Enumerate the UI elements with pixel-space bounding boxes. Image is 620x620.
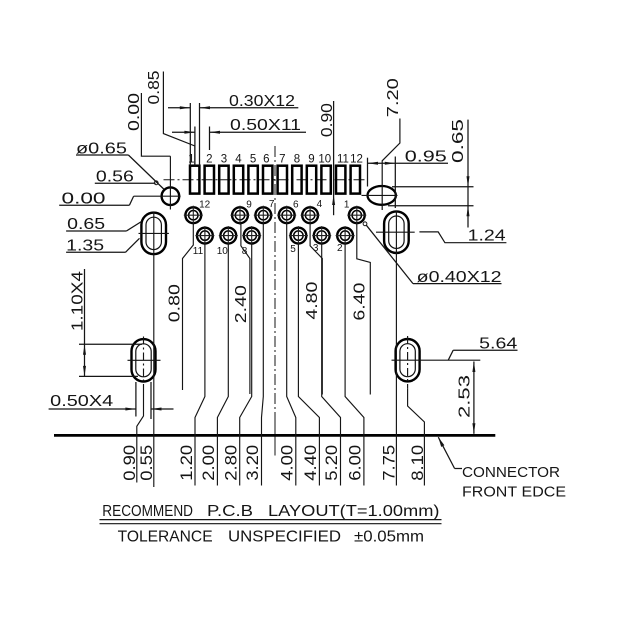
via 12 (top row) (184, 206, 203, 225)
svg-text:0.30X12: 0.30X12 (229, 93, 295, 110)
svg-text:0.80: 0.80 (167, 284, 184, 322)
ordinate label 0.85 (pad1 center) (146, 71, 195, 166)
upper-right slot horizontal crosshair / 1.24 extension (376, 231, 415, 233)
svg-text:2.80: 2.80 (222, 445, 240, 481)
svg-text:0.65: 0.65 (450, 119, 467, 163)
svg-text:FRONT EDCE: FRONT EDCE (462, 484, 566, 501)
label ø0.40X12 (via size) (363, 222, 502, 286)
title: recommend pcb layout (100, 503, 442, 524)
svg-text:9: 9 (308, 154, 314, 166)
svg-text:4.00: 4.00 (278, 445, 296, 481)
svg-text:TOLERANCE: TOLERANCE (118, 529, 213, 546)
ellipse horizontal crosshair (362, 194, 398, 196)
svg-text:1: 1 (344, 200, 350, 211)
oval slot pad lower left (132, 339, 156, 381)
ordinate label 0.00 vertical (datum) (126, 93, 170, 157)
label 5.64 (lower slot center line) (448, 335, 517, 360)
SMT pad 12 (351, 166, 360, 194)
svg-text:2: 2 (337, 243, 343, 254)
svg-text:4: 4 (317, 199, 323, 210)
svg-text:7.20: 7.20 (385, 78, 402, 117)
dimension 0.65 (ellipse height) (388, 119, 474, 228)
via 3 (bottom row) (312, 226, 331, 245)
svg-text:11: 11 (193, 246, 204, 257)
label 1.35 (via row 2) (66, 237, 139, 254)
leader 2.00 via 10 (217, 244, 228, 486)
SMT pad 9 (307, 166, 316, 194)
leader 6.40 via 1 (357, 224, 371, 395)
SMT pad 4 (234, 166, 243, 194)
elliptical pad 0.95x0.65 (368, 186, 396, 205)
svg-text:10: 10 (217, 246, 229, 257)
svg-text:ø0.40X12: ø0.40X12 (417, 269, 502, 286)
SMT pad 5 (248, 166, 257, 194)
svg-text:0.55: 0.55 (138, 445, 156, 481)
horizontal centerline through pad row (164, 179, 368, 181)
lower-right slot vertical centerline (dash-dot) (407, 336, 409, 389)
SMT pad 1 (190, 166, 199, 194)
oval slot pad upper right (384, 211, 409, 253)
label 0.65 (via row 1) (66, 216, 141, 233)
svg-text:12: 12 (199, 200, 211, 211)
svg-text:0.90: 0.90 (121, 445, 139, 481)
oval slot pad upper left (141, 213, 166, 255)
svg-text:0.00: 0.00 (126, 93, 143, 131)
svg-text:5: 5 (290, 244, 296, 255)
svg-text:1.24: 1.24 (468, 228, 506, 245)
svg-text:8.10: 8.10 (409, 445, 427, 481)
SMT pad 7 (278, 166, 287, 194)
via 5 (bottom row) (289, 226, 308, 245)
dimension 0.95 (ellipse width) (368, 148, 449, 208)
svg-text:1: 1 (188, 154, 194, 166)
svg-text:3.20: 3.20 (244, 445, 262, 481)
svg-text:6.40: 6.40 (352, 282, 369, 320)
svg-text:6.00: 6.00 (347, 445, 365, 481)
via 6 (top row) (277, 206, 296, 225)
ordinate label 7.20 (ellipse center) (382, 78, 402, 210)
dimension 2.53 (to connector edge) (457, 362, 476, 434)
svg-text:0.50X4: 0.50X4 (50, 393, 113, 410)
leader 3.20 via 7 (262, 224, 264, 486)
svg-text:0.85: 0.85 (146, 71, 163, 105)
svg-text:7: 7 (279, 154, 285, 166)
via 2 (bottom row) (336, 226, 355, 245)
SMT pad 11 (336, 166, 345, 194)
svg-text:0.95: 0.95 (405, 148, 447, 165)
SMT pad 10 (321, 166, 330, 194)
leader 6.00 via 2 (345, 244, 364, 486)
round pad horizontal crosshair / 0.00 leader (134, 195, 181, 197)
leader 4.00 via 6 (287, 224, 296, 486)
round pad vertical crosshair (169, 156, 171, 209)
svg-text:±0.05mm: ±0.05mm (354, 529, 424, 546)
lower-left slot vertical centerline (dash-dot) (143, 337, 145, 385)
via 9 (top row) (231, 206, 250, 225)
leader 4.40 via 5 (298, 244, 319, 486)
leader 5.20 via 3 (322, 244, 341, 486)
svg-text:UNSPECIFIED: UNSPECIFIED (228, 529, 341, 546)
dimension 0.30X12 (168, 93, 298, 166)
svg-text:P.C.B: P.C.B (207, 503, 253, 520)
leader 0.55 (upper-left slot) (153, 212, 155, 488)
svg-text:2.00: 2.00 (200, 445, 218, 481)
leader 0.80 via 12 (183, 224, 194, 391)
svg-text:12: 12 (350, 154, 363, 166)
SMT pad 2 (205, 166, 214, 194)
svg-text:CONNECTOR: CONNECTOR (462, 464, 560, 481)
lower-left slot horizontal crosshair (128, 359, 161, 361)
svg-text:LAYOUT(T=1.00mm): LAYOUT(T=1.00mm) (268, 503, 440, 520)
via 7 (top row) (254, 206, 273, 225)
svg-text:6: 6 (293, 199, 299, 210)
leader 1.20 via 11 (195, 244, 205, 486)
dimension 1.10X4 (slot length) (70, 269, 143, 376)
leader 0.90 (lower-left slot) (137, 384, 144, 483)
center axis solid stub through edge (274, 420, 276, 456)
svg-text:0.50X11: 0.50X11 (230, 117, 301, 134)
svg-text:4.40: 4.40 (302, 445, 320, 481)
lower-right slot crosshair + 5.64 extension line (392, 359, 481, 361)
via 11 (bottom row) (195, 226, 214, 245)
round pad ø0.65 (datum) (162, 187, 180, 205)
svg-text:5.64: 5.64 (479, 335, 517, 352)
label 0.56 (95, 168, 158, 185)
leader 2.80 via 8 (240, 244, 252, 486)
svg-text:5.20: 5.20 (323, 445, 341, 481)
svg-text:11: 11 (337, 154, 349, 166)
connector front edge line (54, 434, 495, 437)
svg-text:1.20: 1.20 (178, 445, 196, 481)
via 4 (top row) (301, 206, 320, 225)
via 8 (bottom row) (242, 226, 261, 245)
svg-text:4: 4 (235, 154, 242, 166)
svg-text:6: 6 (263, 154, 269, 166)
svg-text:8: 8 (294, 154, 300, 166)
svg-text:7.75: 7.75 (381, 445, 399, 481)
svg-text:9: 9 (246, 200, 252, 211)
dimension 0.50X4 (slot width) (49, 382, 174, 419)
leader 4.80 via 4 (310, 224, 322, 395)
svg-text:2.40: 2.40 (233, 285, 250, 323)
svg-text:3: 3 (221, 154, 227, 166)
SMT pad 8 (292, 166, 301, 194)
label 0.00 horizontal (59, 190, 133, 207)
svg-text:RECOMMEND: RECOMMEND (102, 503, 193, 520)
leader 2.40 via 9 (241, 224, 250, 395)
SMT pad 3 (219, 166, 228, 194)
label ø0.65 (round pad) (76, 140, 164, 189)
vertical center axis of connector (274, 146, 276, 420)
svg-text:0.65: 0.65 (67, 216, 105, 233)
svg-text:10: 10 (318, 154, 331, 166)
label 1.24 (upper-right slot) (419, 228, 506, 245)
connector front edge callout (438, 437, 566, 500)
svg-text:5: 5 (250, 154, 256, 166)
dimension 0.50X11 (172, 117, 306, 166)
via 1 (top row) (347, 206, 366, 225)
svg-text:2.53: 2.53 (457, 375, 474, 418)
SMT pad 6 (263, 166, 272, 194)
leader 8.10 (lower-right slot) (408, 389, 425, 486)
title: tolerance note (118, 529, 424, 546)
upper-left slot horizontal crosshair (139, 232, 169, 234)
ordinate label 0.90 (top) (319, 101, 336, 215)
svg-text:4.80: 4.80 (304, 281, 321, 319)
svg-text:7: 7 (269, 199, 275, 210)
leader 7.75 (upper-right slot) (395, 211, 397, 486)
svg-text:2: 2 (206, 154, 212, 166)
oval slot pad lower right (396, 339, 420, 381)
via 10 (bottom row) (219, 226, 238, 245)
